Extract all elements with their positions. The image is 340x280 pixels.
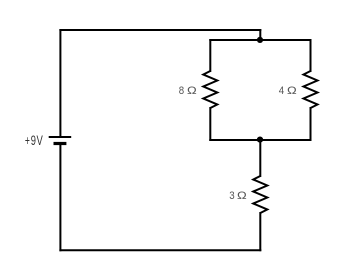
svg-text:4: 4 [279, 85, 284, 97]
wire: drop from top rail to node A [259, 30, 261, 40]
svg-text:Ω: Ω [187, 85, 197, 97]
svg-text:+: + [25, 133, 30, 148]
wire: parallel box bottom rail [210, 139, 310, 141]
wire: middle branch upper lead [259, 140, 261, 176]
value label 8 ohm [179, 85, 197, 97]
node A (junction dot top) [257, 37, 263, 43]
value label +9V [25, 133, 43, 148]
node B (junction dot bottom) [257, 137, 263, 143]
wire: bottom horizontal rail [60, 249, 260, 251]
svg-text:8: 8 [179, 85, 184, 97]
svg-text:9: 9 [31, 133, 36, 148]
svg-text:Ω: Ω [237, 190, 247, 202]
wire: parallel box top rail [210, 39, 310, 41]
wire: left branch lower lead [209, 108, 211, 140]
resistor R2 4 ohm [304, 71, 318, 108]
svg-text:3: 3 [229, 190, 234, 202]
wire: middle branch lower lead [259, 213, 261, 250]
value label 3 ohm [229, 190, 247, 202]
resistor R3 3 ohm [253, 176, 267, 213]
wire: top horizontal rail [60, 29, 260, 31]
battery B1 positive plate (long) [49, 136, 71, 138]
resistor R1 8 ohm [203, 71, 217, 108]
wire: battery bottom vertical [59, 145, 61, 250]
svg-text:V: V [37, 133, 43, 148]
wire: left branch upper lead [209, 40, 211, 71]
wire: battery top vertical [59, 30, 61, 137]
svg-text:Ω: Ω [287, 85, 297, 97]
wire: right branch lower lead [310, 108, 312, 140]
battery B1 negative plate (short thick) [54, 142, 67, 145]
value label 4 ohm [279, 85, 297, 97]
wire: right branch upper lead [310, 40, 312, 71]
